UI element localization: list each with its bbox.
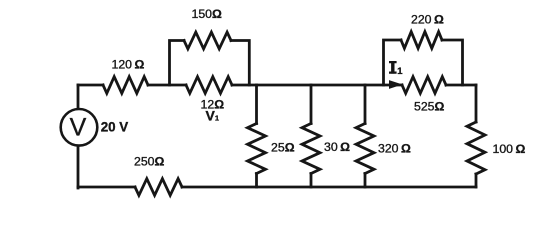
- svg-text:V: V: [70, 114, 87, 142]
- svg-text:25Ω: 25Ω: [271, 141, 295, 155]
- svg-text:320 Ω: 320 Ω: [378, 142, 411, 156]
- svg-text:150Ω: 150Ω: [192, 7, 223, 21]
- svg-text:220 Ω: 220 Ω: [411, 13, 444, 27]
- svg-text:250Ω: 250Ω: [134, 155, 165, 169]
- svg-text:30 Ω: 30 Ω: [324, 140, 350, 154]
- svg-text:1: 1: [397, 66, 403, 77]
- svg-text:525Ω: 525Ω: [414, 100, 445, 114]
- svg-text:20 V: 20 V: [101, 120, 129, 135]
- svg-text:100 Ω: 100 Ω: [493, 142, 526, 156]
- svg-text:120 Ω: 120 Ω: [112, 58, 145, 72]
